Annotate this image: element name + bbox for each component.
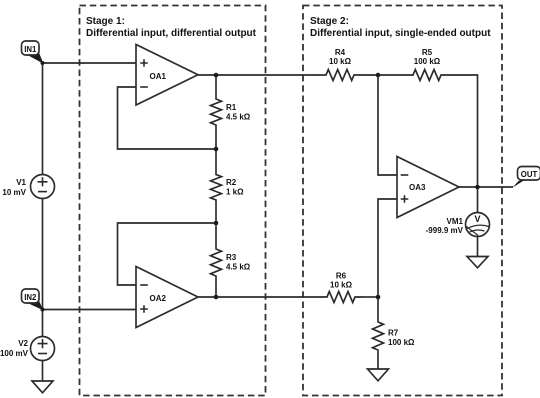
port flag OUT [513,167,540,188]
junction node OA3 output [475,185,480,190]
resistor R6 [319,272,363,303]
svg-text:100 kΩ: 100 kΩ [414,57,441,66]
junction node R2/R3 [214,221,219,226]
svg-text:V: V [474,214,480,224]
port flag IN2 [22,289,44,310]
resistor R4 [318,48,362,81]
resistor R3 [211,223,251,297]
svg-text:10 kΩ: 10 kΩ [329,57,352,66]
port flag IN1 [22,41,44,64]
svg-text:4.5 kΩ: 4.5 kΩ [226,263,251,272]
svg-text:R6: R6 [336,272,347,281]
wire IN2 node to OA2 + input [43,309,137,311]
svg-text:Differential input, single-end: Differential input, single-ended output [310,28,491,39]
op-amp OA1 [136,45,198,106]
resistor R2 [211,149,245,223]
op-amp OA3 [397,157,459,218]
ground below V2 [32,381,53,393]
wire OA2 output to R6 left lead [198,296,319,298]
wire OA3 + input left and down to R6/R7 node [378,199,397,297]
svg-text:V1: V1 [16,178,26,187]
svg-text:Stage 1:: Stage 1: [86,16,125,27]
wire V2 bottom to ground [42,361,44,382]
junction node OA1 output / R1 top [214,73,219,78]
resistor R7 [373,297,416,369]
wire OA1 feedback (inverting input to R1/R2 node) [118,87,217,149]
svg-text:Differential input, differenti: Differential input, differential output [86,28,257,39]
voltmeter VM1 [426,213,490,237]
wire IN2 node down to V2 top [42,310,44,337]
wire OA3 output to OUT flag [459,186,513,188]
wire OA1 output to R4 left lead [198,74,318,76]
svg-text:10 mV: 10 mV [2,188,26,197]
op-amp OA2 [136,267,198,328]
svg-text:OA1: OA1 [150,72,167,81]
wire R5 right, corner down to OA3 output node [449,75,478,187]
svg-text:4.5 kΩ: 4.5 kΩ [226,113,251,122]
stage 1 title [86,16,257,39]
stage 1 boundary dashed box [80,6,266,396]
wire IN1 node down to V1 top [42,63,44,175]
svg-text:R7: R7 [388,329,399,338]
junction node OA2 output / R3 bottom [214,295,219,300]
svg-text:OUT: OUT [521,170,538,179]
node IN2 [41,308,45,312]
resistor R1 [211,75,251,149]
node IN1 [41,61,45,65]
svg-text:OA2: OA2 [150,294,167,303]
svg-text:IN1: IN1 [24,45,37,54]
svg-text:VM1: VM1 [447,217,464,226]
voltage source V2 [0,337,55,361]
svg-text:R4: R4 [335,48,346,57]
wire OA3 output node down to VM1 [477,187,479,213]
junction node R4/R5 [376,73,381,78]
ground below VM1 [467,257,488,268]
svg-text:10 kΩ: 10 kΩ [330,281,353,290]
svg-text:100 kΩ: 100 kΩ [388,338,415,347]
svg-text:-999.9 mV: -999.9 mV [426,226,464,235]
stage 2 boundary dashed box [303,6,502,396]
junction node R6/R7 [376,295,381,300]
junction node R1/R2 [214,147,219,152]
svg-text:R5: R5 [422,48,433,57]
stage 2 title [310,16,491,39]
wire OA2 feedback (inverting input to R2/R3 node) [118,223,217,285]
wire R4 right to R5 left [362,74,405,76]
wire V1 bottom to IN2 node [42,199,44,310]
svg-text:Stage 2:: Stage 2: [310,16,349,27]
svg-text:R2: R2 [226,178,237,187]
wire VM1 bottom to ground [477,237,479,257]
svg-text:R3: R3 [226,253,237,262]
wire R4/R5 node down to OA3 - input [378,75,397,175]
resistor R5 [405,48,449,81]
voltage source V1 [2,175,54,199]
wire R6 right to R6/R7 node [363,296,378,298]
svg-text:IN2: IN2 [24,293,37,302]
svg-text:100 mV: 100 mV [0,349,29,358]
svg-text:R1: R1 [226,103,237,112]
svg-text:1 kΩ: 1 kΩ [226,188,244,197]
wire IN1 node to OA1 + input [43,62,137,64]
ground below R7 [368,369,389,381]
svg-text:V2: V2 [18,339,28,348]
svg-text:OA3: OA3 [409,183,426,192]
